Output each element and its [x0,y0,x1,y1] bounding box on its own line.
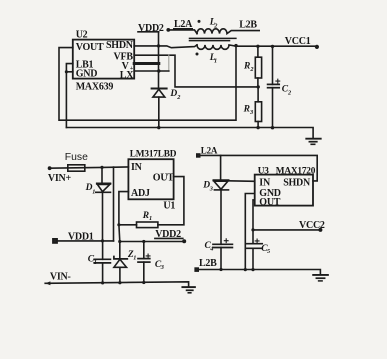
svg-text:3: 3 [209,185,213,192]
svg-text:2: 2 [176,94,180,101]
svg-text:LM317LBD: LM317LBD [130,149,177,159]
svg-text:U2: U2 [76,30,88,41]
svg-text:5: 5 [267,248,270,255]
svg-text:U3: U3 [258,167,270,177]
svg-text:1: 1 [94,259,97,266]
svg-text:VOUT: VOUT [76,42,104,53]
svg-text:4: 4 [209,245,213,252]
svg-text:VCC1: VCC1 [285,36,311,47]
svg-text:1: 1 [92,188,95,195]
svg-text:VDD2: VDD2 [155,229,181,240]
svg-text:SHDN: SHDN [283,178,311,189]
svg-text:ADJ: ADJ [131,188,150,199]
svg-text:L2A: L2A [201,145,218,155]
svg-text:VIN+: VIN+ [48,173,72,184]
svg-text:OUT: OUT [153,172,175,183]
svg-text:IN: IN [259,177,271,188]
svg-text:2: 2 [287,89,291,96]
svg-text:VIN-: VIN- [50,271,71,282]
svg-text:VDD1: VDD1 [68,231,94,242]
svg-text:VCC2: VCC2 [299,220,325,231]
svg-text:L2B: L2B [199,258,217,269]
svg-text:L2B: L2B [239,20,257,31]
svg-text:LX: LX [120,70,134,81]
svg-text:SHDN: SHDN [106,40,134,51]
svg-text:Fuse: Fuse [65,152,88,163]
svg-text:R: R [243,61,250,71]
svg-text:2: 2 [249,66,253,73]
svg-text:MAX639: MAX639 [76,82,114,93]
svg-text:GND: GND [76,69,98,80]
svg-text:1: 1 [133,255,136,262]
svg-text:D: D [169,89,177,99]
svg-text:R: R [243,104,250,114]
svg-text:IN: IN [131,162,143,173]
svg-text:3: 3 [160,264,164,271]
svg-text:U1: U1 [163,201,175,212]
svg-text:3: 3 [249,109,253,116]
svg-text:L2A: L2A [174,19,193,30]
svg-text:OUT: OUT [259,197,281,208]
svg-text:2: 2 [213,22,217,29]
svg-text:VDD2: VDD2 [138,23,164,34]
svg-text:MAX1720: MAX1720 [276,167,316,177]
svg-text:1: 1 [214,58,217,65]
svg-text:1: 1 [149,215,152,222]
